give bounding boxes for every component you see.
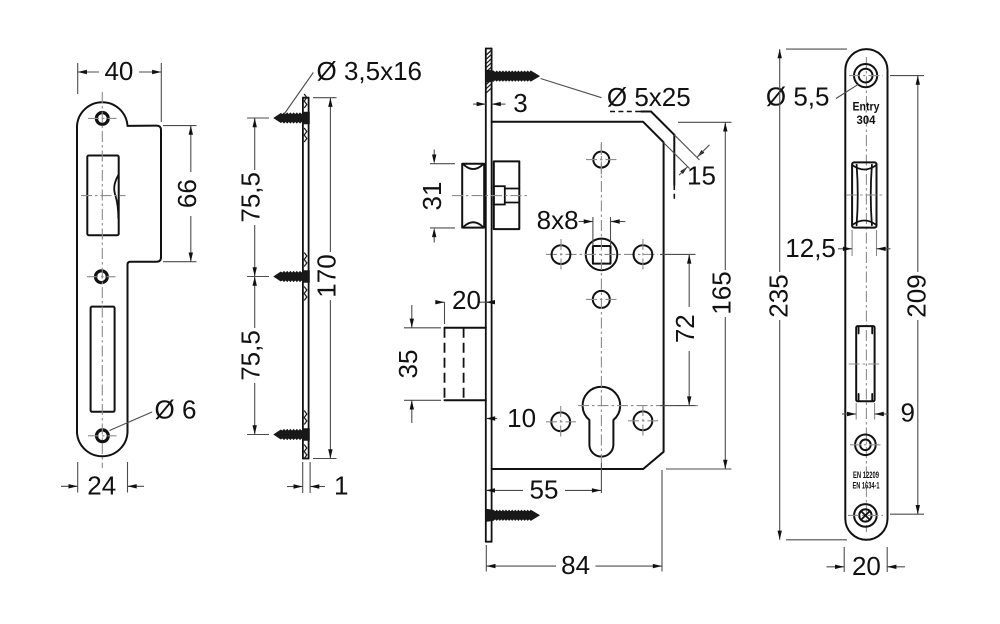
dimension 55 (backset) <box>486 489 523 491</box>
euro cylinder hole <box>583 387 621 457</box>
cylinder horizontal center line <box>578 405 698 407</box>
strike plate outline (front view) <box>77 102 161 456</box>
strike plate middle screw hole <box>96 271 108 283</box>
crosshair bottom hole <box>88 435 117 437</box>
dimension 235 <box>786 48 847 50</box>
label diameter 6 <box>110 412 153 431</box>
dimension 15 (chamfer) <box>674 135 699 160</box>
svg-text:304: 304 <box>857 113 876 127</box>
latch spring detail <box>494 186 505 204</box>
dimension 9 <box>855 403 857 420</box>
strike plate latch cutout <box>87 156 118 236</box>
screw S2 (side view middle) <box>274 271 310 283</box>
label diameter 3,5x16 <box>284 73 313 115</box>
svg-text:24: 24 <box>87 470 116 500</box>
left fixing hole <box>552 245 571 264</box>
svg-text:84: 84 <box>561 550 590 580</box>
svg-text:12,5: 12,5 <box>785 233 836 263</box>
svg-text:EN 1634-1: EN 1634-1 <box>853 481 880 491</box>
lock faceplate side bar <box>485 49 487 542</box>
deadbolt opening <box>856 326 874 401</box>
dimension 24 <box>77 462 79 493</box>
svg-text:Ø 5x25: Ø 5x25 <box>607 82 691 112</box>
crosshair latch cutout <box>81 195 126 197</box>
right fixing hole <box>634 245 653 264</box>
svg-text:55: 55 <box>530 474 559 504</box>
dimension 35 (deadbolt height) <box>404 327 441 329</box>
dimension 20 (face plate width) <box>843 547 845 572</box>
crosshair middle hole <box>87 276 116 278</box>
dimension 66 <box>163 125 197 127</box>
svg-text:72: 72 <box>670 314 700 343</box>
hub row center line <box>546 253 658 255</box>
latch center line <box>452 195 528 197</box>
latch bolt in opening (spool shape) <box>857 165 858 225</box>
screw S3 (side view bottom) <box>274 429 310 441</box>
dimension 170 <box>313 97 337 99</box>
svg-text:165: 165 <box>706 271 736 314</box>
svg-text:Ø 3,5x16: Ø 3,5x16 <box>317 56 423 86</box>
bottom left fixing hole <box>551 412 570 431</box>
bottom right fixing hole <box>634 411 653 430</box>
dimension 40 <box>77 63 79 94</box>
svg-text:1: 1 <box>334 471 348 501</box>
svg-text:EN 12209: EN 12209 <box>853 470 879 480</box>
label diameter 5,5 <box>836 84 859 98</box>
strike plate side view body <box>302 98 304 459</box>
label diameter 5x25 <box>541 79 602 98</box>
case corner outer vertical <box>673 135 675 185</box>
follower circle <box>586 239 618 271</box>
screw S4 (faceplate top) <box>486 70 540 82</box>
strike plate deadbolt cutout <box>91 307 115 412</box>
case corner outer chamfer <box>651 112 674 135</box>
latch opening <box>852 162 876 227</box>
svg-text:75,5: 75,5 <box>236 172 266 223</box>
svg-text:40: 40 <box>104 56 133 86</box>
screw S1 (side view top) <box>274 112 310 124</box>
face plate center line <box>865 57 867 532</box>
svg-text:66: 66 <box>172 179 202 208</box>
svg-text:10: 10 <box>507 403 536 433</box>
dimension 75,5 upper <box>247 117 269 119</box>
dimension 20 (deadbolt) <box>444 302 446 324</box>
dimension 3 (faceplate thickness) <box>473 103 486 105</box>
face plate top screw hole <box>854 64 877 87</box>
svg-text:9: 9 <box>901 398 915 428</box>
svg-text:31: 31 <box>417 182 447 211</box>
svg-text:20: 20 <box>452 285 481 315</box>
cylinder screw hole <box>855 435 876 456</box>
svg-text:75,5: 75,5 <box>236 330 266 381</box>
dimension 209 <box>890 75 924 77</box>
face plate outline <box>845 49 887 540</box>
latch tongue curve <box>114 175 118 219</box>
side view countersink marks <box>304 94 307 108</box>
svg-text:170: 170 <box>311 254 341 297</box>
top hole <box>593 152 609 168</box>
deadbolt (dashed, in case) <box>445 327 486 329</box>
middle small hole <box>593 291 610 308</box>
dimension 72 <box>660 253 696 255</box>
svg-text:8x8: 8x8 <box>537 205 579 235</box>
dimension 1 <box>302 462 304 493</box>
svg-text:Ø 5,5: Ø 5,5 <box>766 81 830 111</box>
svg-text:Ø 6: Ø 6 <box>155 394 197 424</box>
svg-text:209: 209 <box>902 274 932 317</box>
svg-text:Entry: Entry <box>853 100 880 114</box>
screw S5 (faceplate bottom) <box>486 509 540 521</box>
strike plate top screw hole <box>96 113 108 125</box>
latch body (inside case) <box>494 161 520 229</box>
dimension 75,5 lower <box>247 434 269 436</box>
case corner outer edge (dashed extension) <box>610 111 644 113</box>
crosshair top hole <box>88 117 117 119</box>
dimension 12,5 <box>851 230 853 256</box>
dimension 8x8 <box>592 217 594 246</box>
8x8 spindle square <box>593 246 611 264</box>
svg-text:35: 35 <box>393 350 423 379</box>
strike plate bottom screw hole <box>97 430 109 442</box>
face plate bottom screw hole <box>854 504 877 527</box>
svg-text:235: 235 <box>764 274 794 317</box>
lock case outline <box>492 122 664 469</box>
svg-text:3: 3 <box>513 88 527 118</box>
dimension 10 <box>486 418 497 420</box>
lock vertical center line <box>600 142 602 463</box>
faceplate section hatching <box>486 50 492 93</box>
dimension 84 <box>485 545 487 572</box>
dimension 31 (latch height) <box>430 163 455 165</box>
dimension 165 <box>678 121 732 123</box>
svg-text:20: 20 <box>852 551 881 581</box>
svg-text:15: 15 <box>687 161 716 191</box>
strike plate vertical center line <box>101 92 103 468</box>
latch head (front of faceplate) <box>462 164 484 228</box>
bottom screw phillips marks <box>861 511 869 519</box>
